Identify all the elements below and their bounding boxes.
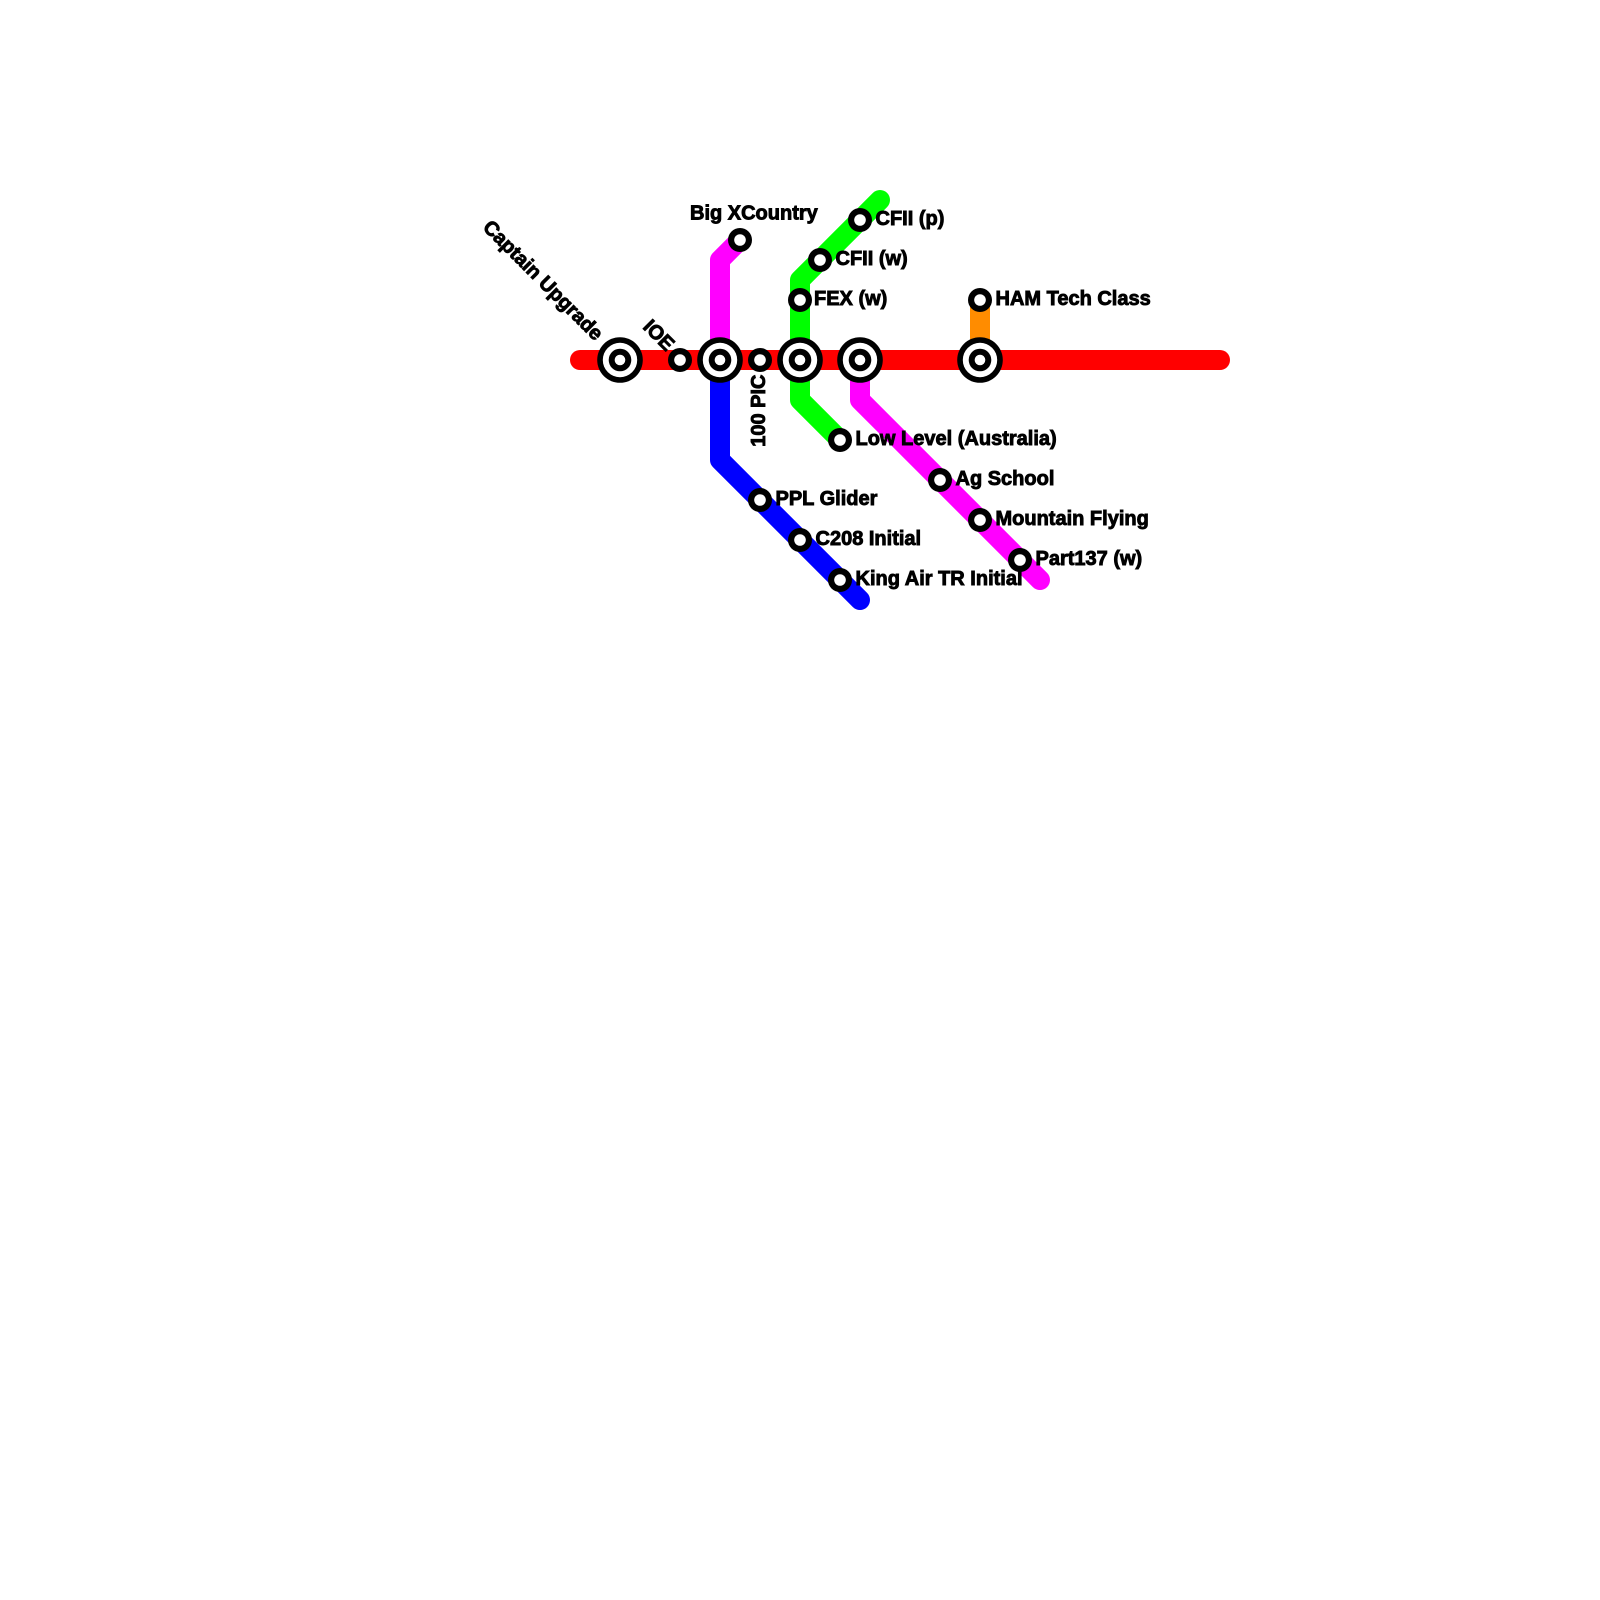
svg-text:100 PIC: 100 PIC	[748, 375, 770, 447]
interchange station (980,360) orange junction	[957, 337, 1003, 383]
small station FEX (w) (800,300)	[788, 288, 812, 312]
svg-text:CFII (w): CFII (w)	[836, 248, 908, 270]
svg-text:HAM Tech Class: HAM Tech Class	[996, 288, 1151, 310]
svg-text:Ag School: Ag School	[956, 468, 1055, 490]
small station King Air TR Initial (840,580)	[828, 568, 852, 592]
small station PPL Glider (760,500)	[748, 488, 772, 512]
green line (CFII/FEX/Low Level branch)	[800, 200, 880, 440]
blue line (glider/C208/King Air branch)	[720, 360, 860, 600]
svg-text:C208 Initial: C208 Initial	[816, 528, 922, 550]
small station IOE (680,360)	[668, 348, 692, 372]
red line (mainline)	[580, 350, 1220, 370]
svg-text:Part137 (w): Part137 (w)	[1036, 548, 1143, 570]
small station Big XCountry (740,240)	[728, 228, 752, 252]
svg-text:PPL Glider: PPL Glider	[776, 488, 878, 510]
small station 100 PIC (760,360)	[748, 348, 772, 372]
interchange station Captain Upgrade (620,360)	[597, 337, 643, 383]
small station Mountain Flying (980,520)	[968, 508, 992, 532]
svg-text:King Air TR Initial: King Air TR Initial	[856, 568, 1023, 590]
orange line (HAM Tech Class spur)	[970, 300, 990, 360]
small station HAM Tech Class (980,300)	[968, 288, 992, 312]
svg-text:FEX (w): FEX (w)	[814, 288, 887, 310]
magenta line upper branch (to Big XCountry)	[720, 240, 740, 360]
svg-text:CFII (p): CFII (p)	[876, 208, 945, 230]
small station CFII (w) (820,260)	[808, 248, 832, 272]
interchange station (800,360) green junction	[777, 337, 823, 383]
small station Part137 (1020,560)	[1008, 548, 1032, 572]
small station Ag School (940,480)	[928, 468, 952, 492]
small station Low Level (840,440)	[828, 428, 852, 452]
svg-text:Low Level (Australia): Low Level (Australia)	[856, 428, 1057, 450]
svg-text:Mountain Flying: Mountain Flying	[996, 508, 1149, 530]
magenta line lower branch (Ag School/Mountain/Part137)	[860, 360, 1040, 580]
svg-text:Big XCountry: Big XCountry	[690, 203, 819, 225]
interchange station (860,360) magenta junction	[837, 337, 883, 383]
small station CFII (p) (860,220)	[848, 208, 872, 232]
interchange station (720,360) magenta/blue junction	[697, 337, 743, 383]
small station C208 Initial (800,540)	[788, 528, 812, 552]
